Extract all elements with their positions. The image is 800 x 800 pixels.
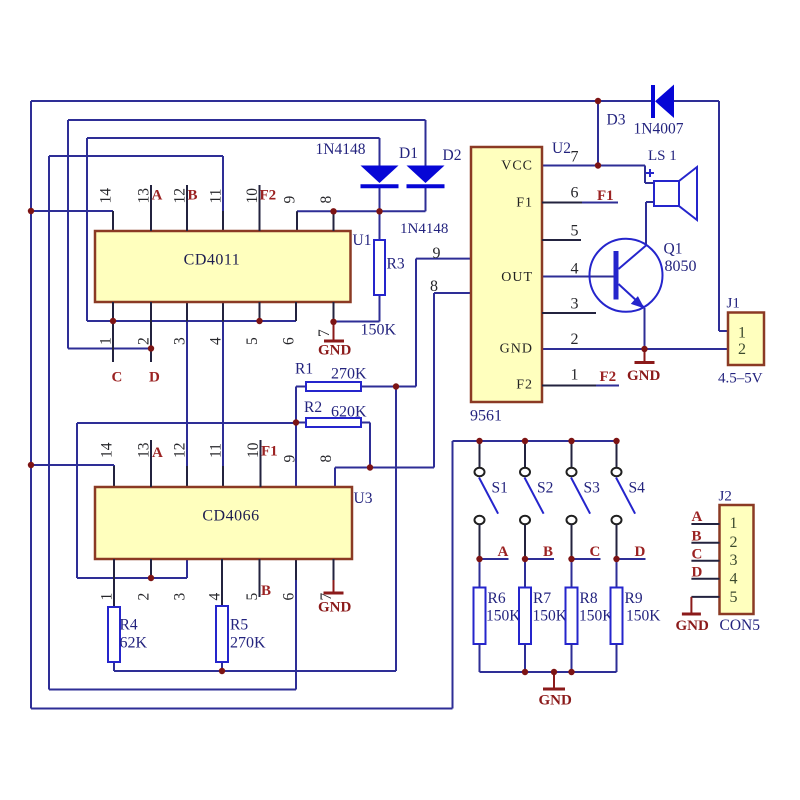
wire S2 to resistor <box>524 559 526 588</box>
wire bottom rail to switch bus <box>31 708 453 710</box>
svg-text:A: A <box>152 188 163 204</box>
svg-text:B: B <box>543 544 553 560</box>
svg-text:U2: U2 <box>552 140 571 157</box>
CD4011 pin 5 stub <box>259 302 261 321</box>
diode D1 1N4148 <box>361 166 399 184</box>
svg-text:GND: GND <box>627 368 661 384</box>
wire 9561 OUT to Q1 base <box>542 276 614 278</box>
svg-text:270K: 270K <box>331 366 367 383</box>
resistor R4 62K <box>108 607 120 662</box>
CD4066 pin 7 stub to ground <box>333 559 335 580</box>
svg-text:7: 7 <box>571 149 579 166</box>
svg-text:B: B <box>692 529 702 545</box>
net stub C at S3 <box>572 558 601 560</box>
CD4011 pin 6 stub <box>295 302 297 321</box>
svg-text:14: 14 <box>98 188 115 204</box>
svg-text:F1: F1 <box>597 188 614 204</box>
svg-text:B: B <box>261 583 271 599</box>
CD4066 pin 5 stub net B <box>259 559 261 597</box>
ground at switch bus <box>553 672 555 688</box>
wire Q1 emitter to ground node <box>644 308 646 349</box>
R8 bottom lead <box>571 644 573 672</box>
wire CD4066 pin14 feed <box>31 464 114 466</box>
switch S4 <box>616 441 618 467</box>
svg-text:270K: 270K <box>230 635 266 652</box>
svg-text:1: 1 <box>99 593 116 601</box>
wire R1 left lead <box>296 386 306 388</box>
svg-text:U1: U1 <box>353 232 372 249</box>
IC U2 9561 body <box>471 147 542 402</box>
wire CD4011 pin14 feed <box>31 210 113 212</box>
svg-text:150K: 150K <box>579 608 614 625</box>
wire nested rect to D2 anode <box>68 119 426 121</box>
svg-text:GND: GND <box>676 618 710 634</box>
svg-text:1: 1 <box>738 325 746 342</box>
resistor R6 150K <box>474 588 486 645</box>
svg-text:14: 14 <box>99 442 116 458</box>
svg-text:1N4148: 1N4148 <box>400 221 448 237</box>
wire CD4066 pin9 R1 R2 left node <box>77 422 296 424</box>
svg-text:D: D <box>635 544 646 560</box>
net stub A at S1 <box>480 558 509 560</box>
wire R2 left lead <box>296 422 306 424</box>
svg-text:GND: GND <box>318 600 352 616</box>
svg-text:9561: 9561 <box>470 408 502 425</box>
svg-text:1: 1 <box>571 367 579 384</box>
svg-text:4: 4 <box>207 593 224 601</box>
connector J1 <box>728 313 764 366</box>
ground at CD4011 pin7 <box>333 322 335 340</box>
svg-text:11: 11 <box>208 443 225 458</box>
svg-text:R9: R9 <box>625 590 643 607</box>
svg-text:C: C <box>590 544 601 560</box>
svg-text:D2: D2 <box>443 147 462 164</box>
svg-text:9: 9 <box>282 196 299 204</box>
svg-text:5: 5 <box>730 589 738 606</box>
transistor Q1 8050 <box>590 239 663 312</box>
wire CD4011 pin11 feed from CD4066 pin6 <box>49 155 223 157</box>
svg-text:D: D <box>692 565 703 581</box>
svg-text:5: 5 <box>244 593 261 601</box>
svg-text:U3: U3 <box>354 490 373 507</box>
svg-text:C: C <box>692 547 703 563</box>
CD4011 pin 13 stub net A <box>150 185 152 231</box>
diode D3 1N4007 <box>651 85 655 118</box>
Q1 emitter with arrow <box>619 284 644 307</box>
svg-text:9: 9 <box>433 245 441 262</box>
svg-text:S2: S2 <box>537 480 553 497</box>
svg-text:12: 12 <box>172 188 189 204</box>
wire D1 cathode lead <box>379 187 381 211</box>
svg-text:4: 4 <box>730 571 738 588</box>
svg-text:3: 3 <box>172 593 189 601</box>
wire R5 bottom lead <box>221 662 223 671</box>
wire D3 cathode to J1 pin1 <box>674 100 719 102</box>
svg-text:13: 13 <box>136 442 153 458</box>
wire CD4011 pin4 to CD4066 pin11 <box>222 302 224 487</box>
svg-text:4: 4 <box>571 261 579 278</box>
wire CD4066 pin8 to 9561 pin8 <box>335 467 434 469</box>
svg-text:F2: F2 <box>600 369 617 385</box>
svg-text:10: 10 <box>245 442 262 458</box>
resistor R5 270K <box>216 606 228 662</box>
CD4066 pin 1 stub to R4 <box>113 559 115 607</box>
svg-text:B: B <box>188 188 198 204</box>
svg-text:9: 9 <box>282 455 299 463</box>
svg-text:150K: 150K <box>361 322 397 339</box>
wire R4 bottom lead <box>113 662 115 671</box>
wire CD4011 pin3 to CD4066 pin12 <box>186 302 188 487</box>
CD4011 pin 2 stub net D <box>150 302 152 362</box>
IC U3 CD4066 body <box>95 487 352 559</box>
svg-text:13: 13 <box>136 188 153 204</box>
svg-text:J2: J2 <box>719 489 732 505</box>
wire S1 to resistor <box>479 559 481 588</box>
svg-text:R8: R8 <box>580 590 598 607</box>
svg-text:Q1: Q1 <box>664 241 683 258</box>
svg-text:150K: 150K <box>626 608 661 625</box>
wire R1 R2 left vertical to CD4066 pin9 <box>295 387 297 488</box>
svg-text:D: D <box>149 370 160 386</box>
resistor R3 <box>374 240 385 295</box>
CD4011 pin 8 stub <box>333 211 335 231</box>
svg-text:S4: S4 <box>629 480 646 497</box>
J2 pin5 stub to ground <box>691 596 719 598</box>
svg-text:4.5–5V: 4.5–5V <box>718 371 763 387</box>
svg-text:R2: R2 <box>304 399 322 416</box>
svg-text:8: 8 <box>318 196 335 204</box>
svg-text:VCC: VCC <box>501 159 533 174</box>
svg-text:150K: 150K <box>486 608 521 625</box>
svg-text:S1: S1 <box>492 480 508 497</box>
switch S1 <box>479 441 481 467</box>
svg-text:R6: R6 <box>488 590 506 607</box>
svg-text:8050: 8050 <box>665 258 697 275</box>
wire R2 right lead down <box>361 422 370 424</box>
svg-text:F1: F1 <box>516 196 533 211</box>
speaker LS1 <box>654 181 679 206</box>
svg-text:R5: R5 <box>230 617 248 634</box>
svg-text:A: A <box>152 445 163 461</box>
svg-text:R4: R4 <box>120 617 138 634</box>
svg-text:D3: D3 <box>607 112 626 129</box>
wire R3 bottom to GND <box>379 295 381 322</box>
svg-text:10: 10 <box>244 188 261 204</box>
connector J2 CON5 <box>720 505 754 614</box>
ground at Q1 emitter <box>644 349 646 362</box>
J2 pin stubs nets A B C D <box>691 523 719 525</box>
svg-text:150K: 150K <box>533 608 568 625</box>
resistor R8 150K <box>566 588 578 645</box>
svg-text:6: 6 <box>281 593 298 601</box>
9561 pin 3 stub <box>542 312 596 314</box>
wire D3 anode lead <box>598 100 652 102</box>
wire R1 right to 9561 pin9 <box>361 386 416 388</box>
Q1 collector <box>619 246 647 270</box>
CD4011 pin 1 stub net C <box>112 302 114 362</box>
R7 bottom lead <box>524 644 526 672</box>
switch S2 <box>524 441 526 467</box>
svg-text:3: 3 <box>571 296 579 313</box>
svg-text:3: 3 <box>730 552 738 569</box>
resistor R9 150K <box>611 588 623 645</box>
svg-text:CON5: CON5 <box>720 617 761 634</box>
svg-text:D1: D1 <box>399 145 418 162</box>
svg-text:R1: R1 <box>295 361 313 378</box>
svg-text:GND: GND <box>318 343 352 359</box>
CD4066 pin 2 stub <box>150 559 152 578</box>
svg-text:2: 2 <box>738 341 746 358</box>
switch S3 <box>571 441 573 467</box>
resistor R7 150K <box>519 588 531 645</box>
svg-text:1: 1 <box>98 337 115 345</box>
wire nested rect to D1 anode <box>87 137 380 139</box>
svg-text:R7: R7 <box>533 590 551 607</box>
R9 bottom lead <box>616 644 618 672</box>
CD4066 pin 10 stub net F1 <box>260 440 262 487</box>
svg-text:12: 12 <box>172 443 189 459</box>
svg-text:5: 5 <box>571 223 579 240</box>
speaker plus sign <box>646 172 654 174</box>
diode D2 1N4148 <box>407 166 445 184</box>
svg-text:2: 2 <box>571 331 579 348</box>
svg-text:2: 2 <box>730 534 738 551</box>
svg-text:C: C <box>112 370 123 386</box>
svg-text:6: 6 <box>281 337 298 345</box>
wire S4 to resistor <box>616 559 618 588</box>
wire VCC top rail <box>31 100 598 102</box>
junction dots <box>28 208 34 214</box>
svg-text:LS 1: LS 1 <box>648 148 677 164</box>
svg-text:620K: 620K <box>331 404 367 421</box>
svg-text:A: A <box>692 509 703 525</box>
wire switch resistor ground bus <box>480 671 617 673</box>
svg-text:J1: J1 <box>727 296 740 312</box>
ground at CD4066 pin7 <box>333 580 335 592</box>
svg-text:7: 7 <box>316 329 333 337</box>
svg-text:GND: GND <box>539 693 573 709</box>
CD4011 pin 12 stub net B <box>186 185 188 231</box>
svg-text:OUT: OUT <box>501 270 533 285</box>
wire speaker bottom lead to Q1 collector <box>646 201 654 203</box>
svg-text:8: 8 <box>318 455 335 463</box>
net stub B at S2 <box>525 558 554 560</box>
net stub D at S4 <box>617 558 646 560</box>
svg-text:R3: R3 <box>387 256 405 273</box>
svg-text:F2: F2 <box>260 188 277 204</box>
IC U1 CD4011 body <box>95 231 351 302</box>
svg-text:5: 5 <box>244 337 261 345</box>
wire speaker top lead <box>644 166 646 184</box>
svg-text:11: 11 <box>208 189 225 204</box>
9561 pin 5 stub <box>542 239 581 241</box>
wire CD4011 pin9 to diodes <box>297 210 426 212</box>
svg-text:F1: F1 <box>261 444 278 460</box>
wire 9561 GND pin2 to J1 pin2 <box>542 348 728 350</box>
wire R1 node down to R4 R5 bus <box>395 387 397 672</box>
9561 pin 1 stub net F2 <box>542 385 596 387</box>
wire CD4011 pin1-5-6 bus <box>87 320 296 322</box>
svg-text:S3: S3 <box>584 480 601 497</box>
R6 bottom lead <box>479 644 481 672</box>
svg-text:4: 4 <box>208 337 225 345</box>
wire 9561 VCC pin7 net <box>542 165 645 167</box>
wire S3 to resistor <box>571 559 573 588</box>
svg-text:8: 8 <box>430 278 438 295</box>
wire D2 cathode lead <box>425 187 427 211</box>
svg-text:F2: F2 <box>516 378 533 393</box>
resistor R2 620K <box>306 418 361 427</box>
CD4011 pin 10 stub net F2 <box>259 185 261 231</box>
svg-text:2: 2 <box>136 337 153 345</box>
svg-text:1: 1 <box>730 515 738 532</box>
svg-text:1N4148: 1N4148 <box>316 141 366 158</box>
svg-text:A: A <box>498 544 509 560</box>
CD4011 pin 7 stub to ground <box>333 302 335 322</box>
svg-text:CD4011: CD4011 <box>184 252 241 269</box>
svg-text:62K: 62K <box>120 635 148 652</box>
wire CD4011 pin2 feed <box>68 348 151 350</box>
wire R3 top lead <box>379 211 381 240</box>
svg-text:GND: GND <box>500 342 533 357</box>
svg-text:1N4007: 1N4007 <box>634 121 684 138</box>
svg-text:CD4066: CD4066 <box>202 508 259 525</box>
svg-text:6: 6 <box>571 185 579 202</box>
9561 pin 6 stub net F1 <box>542 202 582 204</box>
CD4066 pin 13 stub net A <box>150 440 152 487</box>
CD4066 pin 4 stub to R5 <box>221 559 223 606</box>
wire switch top bus <box>453 440 617 442</box>
resistor R1 270K <box>306 382 361 391</box>
svg-text:3: 3 <box>172 337 189 345</box>
svg-text:2: 2 <box>136 593 153 601</box>
